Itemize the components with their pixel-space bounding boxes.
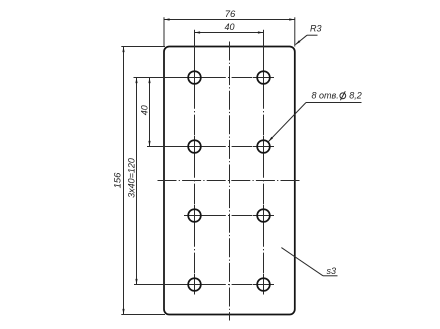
dimension 156 line xyxy=(122,47,124,315)
hole A2 (row1 col2) xyxy=(257,71,270,84)
leader R3 xyxy=(295,35,317,44)
svg-text:40: 40 xyxy=(140,105,150,115)
diameter symbol xyxy=(340,91,346,100)
hole C1 (row3 col1) xyxy=(188,209,201,222)
hole B2 (row2 col2) xyxy=(257,140,270,153)
dimension 156 extension line top xyxy=(121,46,165,48)
plate vertical centerline xyxy=(229,42,231,321)
hole D2 (row4 col2) xyxy=(257,278,270,291)
hole A1 (row1 col1) xyxy=(188,71,201,84)
svg-text:40: 40 xyxy=(224,22,234,32)
hole C2 (row3 col2) xyxy=(257,209,270,222)
svg-text:76: 76 xyxy=(225,9,236,20)
centerline row 3 xyxy=(184,215,274,217)
svg-text:3x40=120: 3x40=120 xyxy=(126,158,136,198)
leader s3 xyxy=(281,248,337,276)
plate outline xyxy=(164,47,295,315)
dimension 40 top line xyxy=(195,31,264,33)
svg-text:s3: s3 xyxy=(327,266,337,276)
svg-text:R3: R3 xyxy=(310,23,322,33)
centerline row 2 (also extension for left 40 dim) xyxy=(147,146,274,148)
hole B1 (row2 col1) xyxy=(188,140,201,153)
centerline row 1 (also extension for left dims) xyxy=(134,77,275,79)
dimension 3x40=120 line xyxy=(135,78,137,285)
dimension 40 left line xyxy=(148,78,150,147)
centerline column 2 (also extension for top 40 dim) xyxy=(263,30,265,295)
centerline column 1 (also extension for top 40 dim) xyxy=(194,30,196,295)
centerline row 4 (also extension for 3x40=120 dim) xyxy=(134,284,274,286)
svg-text:8 отв.: 8 отв. xyxy=(312,91,339,101)
svg-text:8,2: 8,2 xyxy=(349,91,362,101)
leader 8 holes callout xyxy=(268,103,361,142)
dimension 76 line xyxy=(164,18,295,20)
hole D1 (row4 col1) xyxy=(188,278,201,291)
dimension 156 extension line bottom xyxy=(121,314,165,316)
dimension 76 extension line right xyxy=(294,17,296,46)
svg-text:156: 156 xyxy=(113,172,124,189)
plate horizontal centerline xyxy=(158,180,302,182)
dimension 76 extension line left xyxy=(163,17,165,46)
